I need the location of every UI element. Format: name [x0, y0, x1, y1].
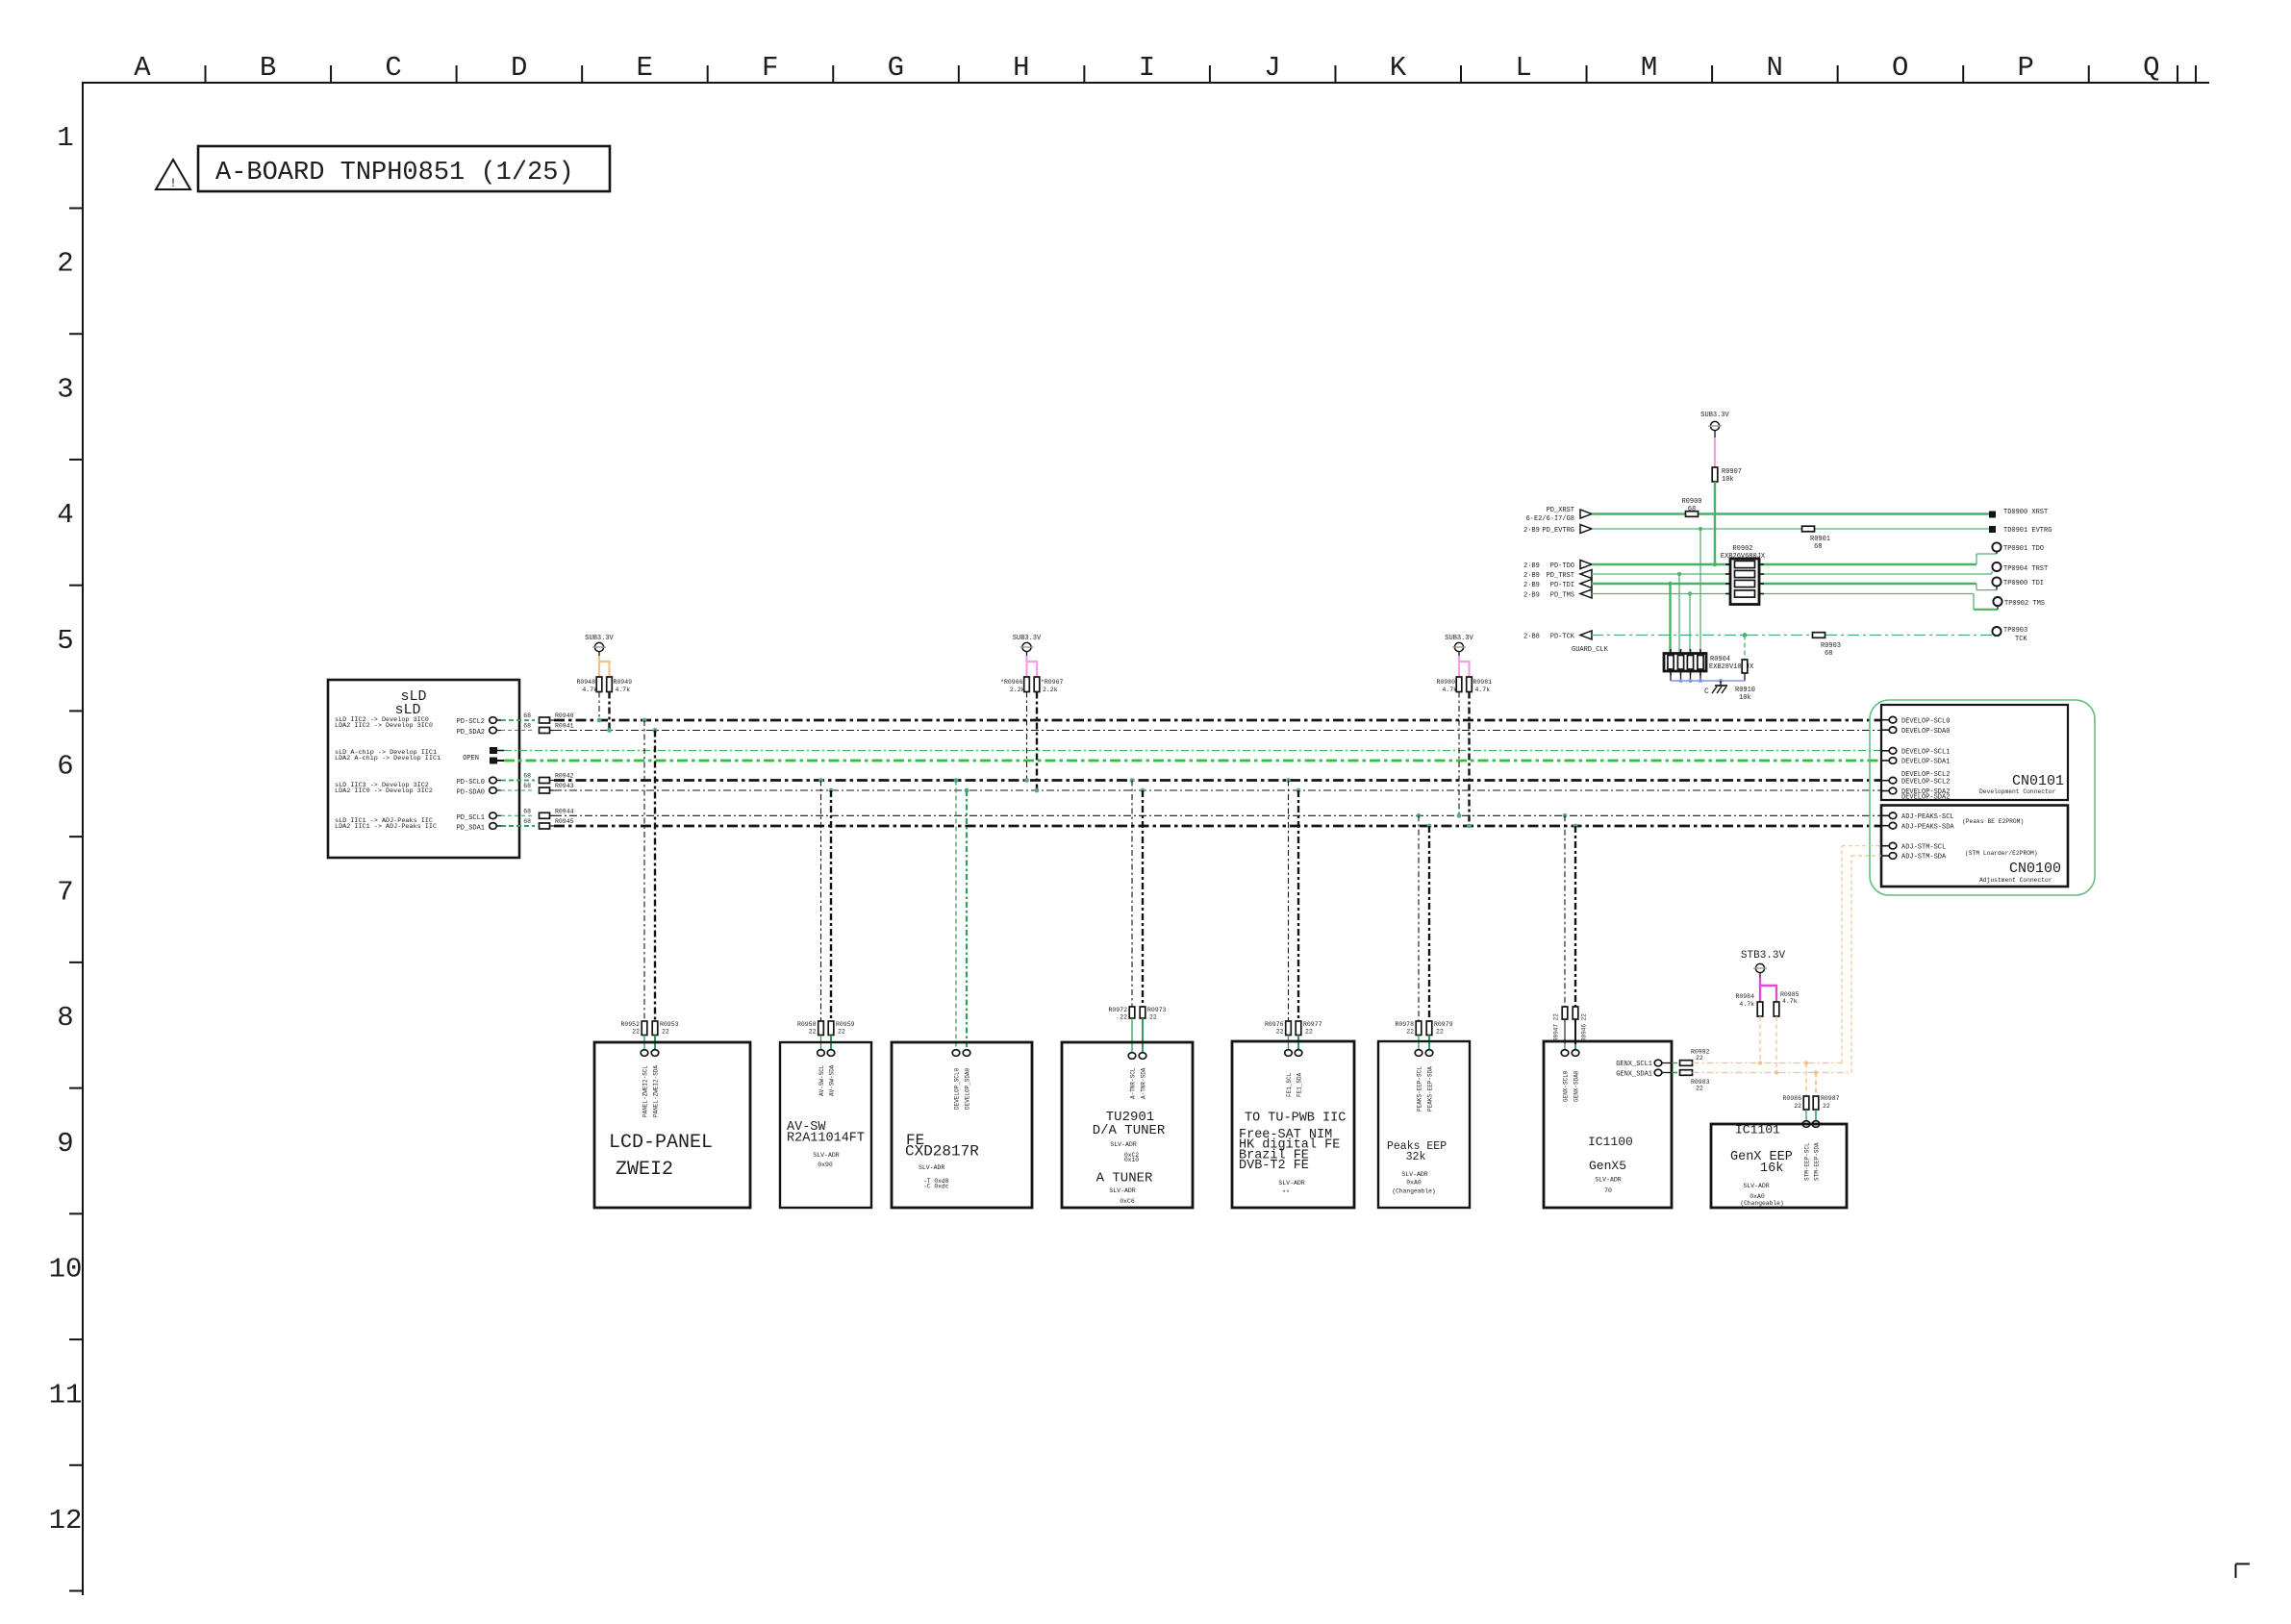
- svg-text:A-BOARD TNPH0851 (1/25): A-BOARD TNPH0851 (1/25): [215, 159, 574, 187]
- svg-text:4.7k: 4.7k: [616, 687, 631, 693]
- svg-text:R0901: R0901: [1810, 536, 1830, 543]
- svg-text:IC1100: IC1100: [1588, 1135, 1633, 1149]
- svg-text:DEVELOP_SDA0: DEVELOP_SDA0: [965, 1067, 971, 1110]
- svg-text:R0986: R0986: [1782, 1095, 1801, 1102]
- svg-text:SLV-ADR: SLV-ADR: [1743, 1183, 1769, 1189]
- pin DEVELOP-SCL2: [1881, 777, 1950, 786]
- svg-text:DEVELOP-SDA2: DEVELOP-SDA2: [1901, 794, 1950, 802]
- svg-text:LDA2 IIC2 -> Develop 3IC0: LDA2 IIC2 -> Develop 3IC0: [335, 722, 433, 730]
- svg-text:R2A11014FT: R2A11014FT: [787, 1132, 865, 1146]
- wire EVTRG tap down: [1699, 527, 1702, 654]
- svg-text:R0978: R0978: [1395, 1021, 1414, 1028]
- bus wire PD-SDA0 (thin): [554, 789, 1881, 791]
- pin PD_SCL1: [490, 812, 501, 819]
- svg-text:FE1_SDA: FE1_SDA: [1297, 1072, 1303, 1097]
- pin DEVELOP-SCL1: [1881, 748, 1950, 757]
- resistor array R0902 EXB26V680JX: [1721, 545, 1766, 605]
- svg-text:SLV-ADR: SLV-ADR: [1109, 1187, 1135, 1194]
- block IC1100 GenX5: [1544, 1041, 1672, 1208]
- block sLD: [328, 680, 519, 858]
- pin PD-SDA0: [490, 787, 501, 794]
- wire orange GENX_SCL1 to ADJ-STM-SCL: [1693, 846, 1882, 1063]
- svg-text:PEAKS-EEP-SCL: PEAKS-EEP-SCL: [1417, 1066, 1423, 1112]
- svg-text:O: O: [1892, 52, 1908, 84]
- wire PD-TCK dashed: [1580, 631, 1997, 639]
- power STB3.3V: [1741, 950, 1786, 978]
- svg-text:TCK: TCK: [2015, 636, 2027, 643]
- svg-text:DEVELOP-SCL2: DEVELOP-SCL2: [1901, 771, 1950, 779]
- resistor R0985 4.7k: [1774, 991, 1799, 1016]
- svg-text:R0940: R0940: [555, 712, 574, 719]
- resistor R0900 68: [1681, 498, 1701, 516]
- block AV-SW R2A11014FT: [780, 1042, 871, 1208]
- svg-text:R0904: R0904: [1710, 656, 1730, 663]
- junction dots on I2C bus: [642, 718, 1578, 829]
- svg-text:22: 22: [1149, 1014, 1157, 1021]
- svg-text:22: 22: [1696, 1086, 1703, 1092]
- svg-text:J: J: [1264, 52, 1280, 84]
- svg-text:AV-SW-SCL: AV-SW-SCL: [818, 1064, 825, 1096]
- pin DEVELOP-SCL0: [1881, 716, 1950, 725]
- svg-text:R0946 22: R0946 22: [1581, 1013, 1588, 1041]
- svg-text:32k: 32k: [1406, 1151, 1426, 1163]
- svg-text:M: M: [1641, 52, 1657, 84]
- svg-text:22: 22: [1406, 1029, 1414, 1036]
- svg-text:R0972: R0972: [1108, 1007, 1127, 1013]
- resistor R0978 22 + drop to Peaks EEP SCL: [1395, 815, 1422, 1056]
- svg-text:68: 68: [1814, 543, 1822, 551]
- svg-text:PD_TRST: PD_TRST: [1547, 572, 1574, 580]
- svg-text:ADJ-STM-SDA: ADJ-STM-SDA: [1901, 854, 1947, 862]
- svg-text:(Peaks BE E2PROM): (Peaks BE E2PROM): [1962, 818, 2024, 825]
- svg-text:2·B9: 2·B9: [1523, 572, 1540, 580]
- svg-text:D: D: [511, 52, 527, 84]
- svg-text:3: 3: [57, 373, 73, 405]
- connector CN0101 Development Connector: [1881, 705, 2068, 800]
- svg-text:R0984: R0984: [1735, 993, 1754, 1000]
- power SUB3.3V pullup R0948 R0949 4.7k: [576, 635, 632, 733]
- pin PD_SDA1: [490, 823, 501, 830]
- svg-text:PD-TDO: PD-TDO: [1550, 562, 1574, 570]
- svg-text:TP0902 TMS: TP0902 TMS: [2004, 600, 2045, 608]
- svg-text:R0902: R0902: [1732, 545, 1752, 553]
- pin PD-SCL0: [490, 777, 501, 784]
- svg-text:R0900: R0900: [1681, 498, 1701, 506]
- wire PD_TRST: [1580, 570, 1992, 579]
- power SUB3.3V (JTAG pull-up): [1700, 412, 1729, 437]
- resistor R0973 22 + drop to TU2901 SDA: [1139, 790, 1166, 1059]
- svg-text:R0959: R0959: [836, 1021, 855, 1028]
- svg-text:Adjustment Connector: Adjustment Connector: [1979, 877, 2052, 884]
- connector outline (green rounded): [1870, 700, 2095, 895]
- svg-text:PD_XRST: PD_XRST: [1547, 507, 1574, 514]
- svg-text:R0943: R0943: [555, 783, 574, 789]
- power SUB3.3V pullup R0966 R0967 2.2k: [1000, 635, 1063, 792]
- wire R0984 to STM SCL line: [1758, 1016, 1762, 1065]
- pin ADJ-PEAKS-SDA: [1881, 822, 1954, 831]
- pad TD0901 EVTRG: [1989, 526, 2052, 535]
- svg-text:22: 22: [1305, 1029, 1313, 1036]
- bus wire PD-SDA2 (thin): [554, 730, 1881, 732]
- resistor R0942 68: [523, 773, 573, 784]
- block TU2901 D/A TUNER: [1062, 1042, 1193, 1208]
- svg-text:GenX5: GenX5: [1589, 1159, 1626, 1173]
- svg-text:GENX-SDA0: GENX-SDA0: [1573, 1070, 1580, 1102]
- svg-text:DEVELOP_SCL0: DEVELOP_SCL0: [954, 1067, 961, 1110]
- svg-text:A-TNR-SDA: A-TNR-SDA: [1141, 1067, 1147, 1099]
- svg-text:2·B9: 2·B9: [1523, 592, 1540, 600]
- svg-text:PANEL-ZWEI2-SCL: PANEL-ZWEI2-SCL: [642, 1065, 649, 1117]
- svg-text:R0949: R0949: [614, 679, 633, 686]
- svg-text:6·E2/6·I7/G8: 6·E2/6·I7/G8: [1526, 515, 1574, 523]
- wire TDO to TP0901: [1759, 551, 1997, 564]
- svg-text:2: 2: [57, 248, 73, 280]
- svg-text:10k: 10k: [1739, 694, 1751, 702]
- svg-text:**: **: [1282, 1189, 1290, 1196]
- test point TP0901 TDO: [1992, 542, 2044, 553]
- svg-text:R0903: R0903: [1821, 642, 1841, 650]
- svg-text:STB3.3V: STB3.3V: [1741, 950, 1786, 962]
- resistor R0958 22 + drop to AV-SW SCL: [797, 781, 824, 1057]
- svg-text:F: F: [762, 52, 778, 84]
- svg-text:DEVELOP-SDA1: DEVELOP-SDA1: [1901, 759, 1950, 766]
- svg-text:PD-SDA0: PD-SDA0: [457, 789, 485, 797]
- resistor R0940 68: [523, 712, 573, 723]
- svg-text:22: 22: [1436, 1029, 1444, 1036]
- svg-text:SLV-ADR: SLV-ADR: [1401, 1171, 1427, 1178]
- svg-text:TP0904 TRST: TP0904 TRST: [2003, 565, 2048, 573]
- bus wire IIC1 SCL green: [504, 750, 1881, 752]
- resistor R0946 22 + drop to IC1100 SDA: [1572, 826, 1579, 1056]
- svg-text:0x90: 0x90: [818, 1162, 833, 1168]
- svg-text:SUB3.3V: SUB3.3V: [1013, 635, 1042, 642]
- svg-text:22: 22: [1696, 1055, 1703, 1062]
- svg-text:TO TU-PWB IIC: TO TU-PWB IIC: [1245, 1112, 1346, 1126]
- test point TP0903 TCK: [1992, 627, 2027, 643]
- svg-text:-C 0xdc: -C 0xdc: [923, 1184, 949, 1190]
- svg-text:DEVELOP-SDA0: DEVELOP-SDA0: [1901, 728, 1950, 736]
- svg-text:H: H: [1013, 52, 1029, 84]
- wire drop to FE DEVELOP_SCL0 (green): [952, 781, 960, 1057]
- svg-text:R0958: R0958: [797, 1021, 817, 1028]
- resistor array R0904 EXB28V103JX: [1664, 649, 1754, 676]
- svg-text:N: N: [1766, 52, 1782, 84]
- svg-text:10: 10: [49, 1254, 83, 1286]
- node PD_EVTRG label: [1523, 527, 1574, 535]
- svg-text:STM-EEP-SDA: STM-EEP-SDA: [1814, 1142, 1821, 1181]
- svg-text:Q: Q: [2143, 52, 2159, 84]
- node PD-TCK label: [1523, 634, 1575, 641]
- svg-text:R0952: R0952: [620, 1021, 640, 1028]
- node PD-TDO label: [1523, 562, 1574, 570]
- svg-text:R0953: R0953: [660, 1021, 679, 1028]
- node PD-XRST label: [1526, 507, 1574, 523]
- svg-text:6: 6: [57, 751, 73, 783]
- svg-text:0xC6: 0xC6: [1120, 1198, 1135, 1205]
- resistor R0943 68: [523, 783, 573, 793]
- test point TP0902 TMS: [1993, 597, 2045, 608]
- svg-text:OPEN: OPEN: [463, 755, 479, 762]
- svg-text:2·B9: 2·B9: [1523, 527, 1540, 535]
- svg-text:22: 22: [1823, 1103, 1830, 1110]
- svg-text:4.7k: 4.7k: [1782, 998, 1798, 1005]
- pin DEVELOP-SDA2: [1881, 787, 1950, 796]
- bus wire PD-SCL0 (thick): [554, 779, 1881, 782]
- wire TMS tap down: [1689, 594, 1691, 655]
- pin ADJ-STM-SCL: [1881, 842, 1946, 851]
- svg-text:8: 8: [57, 1002, 73, 1034]
- test point TP0904 TRST: [1992, 562, 2048, 573]
- svg-text:C: C: [1704, 687, 1709, 696]
- svg-text:B: B: [260, 52, 276, 84]
- svg-text:DEVELOP-SCL2: DEVELOP-SCL2: [1901, 778, 1950, 786]
- svg-text:68: 68: [523, 808, 531, 814]
- block IC1101 GenX EEP 16k: [1711, 1123, 1847, 1209]
- ground chassis symbol: [1704, 681, 1727, 696]
- svg-text:PANEL-ZWEI2-SDA: PANEL-ZWEI2-SDA: [653, 1065, 660, 1117]
- svg-text:R0987: R0987: [1821, 1095, 1840, 1102]
- svg-text:DEVELOP-SCL1: DEVELOP-SCL1: [1901, 749, 1950, 757]
- svg-text:PD_SCL1: PD_SCL1: [457, 814, 485, 822]
- svg-text:9: 9: [57, 1128, 73, 1160]
- node PD-TDI label: [1523, 582, 1574, 589]
- resistor R0941 68: [523, 723, 573, 734]
- svg-text:L: L: [1515, 52, 1531, 84]
- resistor R0901 68: [1802, 526, 1831, 551]
- svg-text:STM-EEP-SCL: STM-EEP-SCL: [1804, 1142, 1811, 1181]
- block FE CXD2817R: [892, 1042, 1032, 1208]
- svg-text:P: P: [2018, 52, 2034, 84]
- svg-text:12: 12: [49, 1505, 83, 1537]
- svg-text:IC1101: IC1101: [1735, 1123, 1780, 1137]
- svg-text:2·B9: 2·B9: [1523, 562, 1540, 570]
- wire PD_TMS: [1580, 589, 1998, 610]
- svg-text:SLV-ADR: SLV-ADR: [919, 1164, 944, 1171]
- svg-text:R0979: R0979: [1434, 1021, 1453, 1028]
- svg-text:(Changeable): (Changeable): [1740, 1200, 1783, 1207]
- svg-text:LDA2 IIC1 -> ADJ-Peaks IIC: LDA2 IIC1 -> ADJ-Peaks IIC: [335, 823, 437, 831]
- pin DEVELOP-SDA1: [1881, 758, 1950, 766]
- svg-text:PD-TDI: PD-TDI: [1550, 582, 1574, 589]
- svg-text:R0942: R0942: [555, 773, 574, 780]
- svg-text:22: 22: [809, 1029, 817, 1036]
- svg-text:ZWEI2: ZWEI2: [616, 1159, 673, 1181]
- resistor R0907 10k: [1712, 467, 1742, 484]
- resistor R0979 22 + drop to Peaks EEP SDA: [1425, 826, 1452, 1056]
- svg-text:PEAKS-EEP-SDA: PEAKS-EEP-SDA: [1427, 1066, 1434, 1112]
- resistor R0952 22 + drop to LCD panel SCL: [620, 720, 647, 1056]
- resistor R0959 22 + drop to AV-SW SDA: [827, 790, 854, 1056]
- svg-text:I: I: [1139, 52, 1155, 84]
- svg-text:PD_TMS: PD_TMS: [1550, 592, 1574, 600]
- wire magenta STB3.3V to pullups: [1760, 978, 1776, 1002]
- svg-text:SLV-ADR: SLV-ADR: [1595, 1177, 1621, 1184]
- svg-text:FE1_SCL: FE1_SCL: [1286, 1072, 1293, 1097]
- pin GENX_SDA1: [1616, 1069, 1677, 1078]
- wire sLD pins to series resistors: [501, 720, 535, 826]
- wire PD-XRST: [1580, 510, 1992, 518]
- wire orange drop to R0987: [1814, 1070, 1818, 1096]
- svg-text:22: 22: [1794, 1103, 1801, 1110]
- svg-text:2·B8: 2·B8: [1523, 634, 1540, 641]
- svg-text:K: K: [1390, 52, 1407, 84]
- svg-text:ADJ-PEAKS-SCL: ADJ-PEAKS-SCL: [1901, 813, 1954, 821]
- svg-text:!: !: [169, 176, 177, 190]
- bus wire ADJ-PEAKS SCL (thin): [554, 814, 1881, 816]
- wire drop to FE DEVELOP_SDA0 (green thick): [963, 790, 970, 1056]
- svg-text:R0948: R0948: [576, 679, 595, 686]
- svg-text:(STM Loarder/E2PROM): (STM Loarder/E2PROM): [1965, 850, 2038, 857]
- crop corner mark bottom right: [2236, 1564, 2251, 1579]
- svg-text:SLV-ADR: SLV-ADR: [813, 1152, 839, 1159]
- resistor R0982 22: [1680, 1049, 1710, 1066]
- wire TCK tap to R0910: [1743, 633, 1748, 660]
- svg-text:R0981: R0981: [1473, 679, 1493, 686]
- svg-text:TD0901 EVTRG: TD0901 EVTRG: [2003, 527, 2052, 535]
- node PD_TRST label: [1523, 572, 1574, 580]
- svg-text:70: 70: [1604, 1187, 1612, 1194]
- svg-text:CN0100: CN0100: [2009, 861, 2061, 877]
- resistor R0944 68: [523, 808, 573, 818]
- resistor R0945 68: [523, 818, 573, 829]
- svg-text:TD0900 XRST: TD0900 XRST: [2003, 509, 2048, 516]
- svg-text:PD_SDA2: PD_SDA2: [457, 729, 485, 737]
- pin DEVELOP-SDA0: [1881, 727, 1950, 736]
- svg-text:*R0967: *R0967: [1041, 679, 1064, 686]
- power SUB3.3V pullup R0980 R0981 4.7k: [1436, 635, 1492, 828]
- svg-text:0xA0: 0xA0: [1750, 1193, 1765, 1200]
- wire R0986 to STM-EEP-SCL pin: [1802, 1110, 1810, 1127]
- svg-text:4.7k: 4.7k: [1442, 687, 1457, 693]
- svg-text:GUARD_CLK: GUARD_CLK: [1572, 646, 1609, 654]
- svg-text:0x10: 0x10: [1124, 1157, 1139, 1163]
- svg-text:R0973: R0973: [1147, 1007, 1167, 1013]
- svg-text:PD-SCL2: PD-SCL2: [457, 718, 485, 726]
- svg-text:R0910: R0910: [1735, 687, 1755, 694]
- svg-text:GENX-SCL0: GENX-SCL0: [1563, 1070, 1570, 1102]
- resistor R0976 22 + drop to TU-PWB SCL: [1265, 781, 1292, 1057]
- pin OPEN IIC1 SDA: [490, 758, 504, 764]
- warning triangle: [156, 160, 190, 190]
- svg-text:(Changeable): (Changeable): [1392, 1188, 1435, 1195]
- wire orange drop to R0986: [1804, 1061, 1808, 1096]
- resistor R0903 68: [1813, 633, 1842, 658]
- svg-text:R0944: R0944: [555, 808, 574, 814]
- svg-text:2·B9: 2·B9: [1523, 582, 1540, 589]
- pin GENX_SCL1: [1616, 1060, 1677, 1068]
- svg-text:R0907: R0907: [1722, 468, 1742, 476]
- svg-text:22: 22: [1120, 1014, 1127, 1021]
- svg-text:DVB-T2 FE: DVB-T2 FE: [1239, 1159, 1309, 1173]
- svg-text:LDA2 A-chip -> Develop IIC1: LDA2 A-chip -> Develop IIC1: [335, 755, 441, 762]
- resistor R0972 22 + drop to TU2901 SCL: [1108, 781, 1135, 1060]
- svg-text:R0977: R0977: [1303, 1021, 1322, 1028]
- resistor R0953 22 + drop to LCD panel SDA: [651, 731, 678, 1057]
- svg-text:G: G: [888, 52, 904, 84]
- block Peaks EEP 32k: [1378, 1041, 1470, 1208]
- svg-text:68: 68: [1825, 650, 1832, 658]
- svg-text:68: 68: [523, 723, 531, 730]
- svg-text:1: 1: [57, 122, 73, 154]
- svg-text:R0985: R0985: [1780, 991, 1800, 998]
- pin PD-SDA2: [490, 727, 501, 734]
- wire PD-TDI: [1580, 580, 1997, 590]
- title box A-BOARD TNPH0851 (1/25): [198, 146, 610, 191]
- svg-text:2.2k: 2.2k: [1010, 687, 1025, 693]
- svg-text:PD_EVTRG: PD_EVTRG: [1542, 527, 1574, 535]
- svg-text:R0980: R0980: [1436, 679, 1455, 686]
- wire pink SUB3.3V to R0907: [1714, 437, 1716, 467]
- svg-text:TP0901 TDO: TP0901 TDO: [2003, 545, 2044, 553]
- svg-text:LDA2 IIC0 -> Develop 3IC2: LDA2 IIC0 -> Develop 3IC2: [335, 787, 433, 795]
- wire PD-TDO: [1580, 561, 1730, 569]
- svg-text:11: 11: [49, 1379, 83, 1411]
- svg-text:SUB3.3V: SUB3.3V: [1445, 635, 1473, 642]
- svg-text:4: 4: [57, 499, 73, 531]
- resistor R0987 22: [1813, 1095, 1839, 1110]
- svg-text:*R0966: *R0966: [1000, 679, 1023, 686]
- svg-text:68: 68: [523, 773, 531, 780]
- svg-text:PD-SCL0: PD-SCL0: [457, 779, 485, 787]
- resistor R0910 10k: [1735, 660, 1755, 702]
- svg-text:22: 22: [662, 1029, 669, 1036]
- resistor R0977 22 + drop to TU-PWB SDA: [1295, 790, 1322, 1056]
- node PD_TMS label: [1523, 592, 1574, 600]
- svg-text:22: 22: [1276, 1029, 1284, 1036]
- svg-text:SLV-ADR: SLV-ADR: [1278, 1180, 1304, 1187]
- svg-text:PD-TCK: PD-TCK: [1550, 634, 1575, 641]
- resistor R0986 22: [1782, 1095, 1808, 1110]
- bus wire ADJ-PEAKS SDA (thick): [554, 825, 1881, 828]
- svg-text:ADJ-PEAKS-SDA: ADJ-PEAKS-SDA: [1901, 823, 1954, 831]
- wire TRST tap down: [1678, 574, 1680, 654]
- svg-text:4.7k: 4.7k: [1475, 687, 1491, 693]
- svg-text:R0947 22: R0947 22: [1553, 1013, 1560, 1041]
- svg-text:22: 22: [838, 1029, 845, 1036]
- svg-text:7: 7: [57, 876, 73, 908]
- svg-text:SLV-ADR: SLV-ADR: [1110, 1141, 1136, 1148]
- svg-text:DEVELOP-SCL0: DEVELOP-SCL0: [1901, 717, 1950, 725]
- svg-text:TP0903: TP0903: [2003, 627, 2027, 635]
- svg-text:D/A TUNER: D/A TUNER: [1093, 1123, 1166, 1138]
- pin ADJ-STM-SDA: [1881, 853, 1947, 862]
- column letters ruler: [134, 52, 2196, 84]
- row numbers ruler: [49, 122, 83, 1591]
- svg-text:5: 5: [57, 625, 73, 657]
- svg-text:CXD2817R: CXD2817R: [905, 1143, 979, 1161]
- wire R0985 to STM SDA line: [1775, 1016, 1778, 1075]
- wire blue ground bus under R0904: [1671, 673, 1745, 683]
- svg-text:E: E: [636, 52, 652, 84]
- svg-text:PD_SDA1: PD_SDA1: [457, 825, 485, 833]
- resistor R0947 22 + drop to IC1100 SCL: [1561, 815, 1569, 1056]
- svg-text:GENX_SDA1: GENX_SDA1: [1616, 1071, 1652, 1079]
- wire PD_EVTRG: [1580, 525, 1992, 534]
- svg-text:68: 68: [523, 818, 531, 825]
- svg-text:0xA0: 0xA0: [1406, 1180, 1422, 1187]
- svg-text:A-TNR-SCL: A-TNR-SCL: [1130, 1067, 1137, 1099]
- bus wire IIC1 SDA green thick: [504, 760, 1881, 762]
- svg-text:SUB3.3V: SUB3.3V: [585, 635, 614, 642]
- wire R0987 to STM-EEP-SDA pin: [1812, 1110, 1820, 1127]
- svg-text:10k: 10k: [1722, 476, 1734, 484]
- block TO TU-PWB IIC: [1232, 1041, 1354, 1208]
- svg-text:68: 68: [523, 712, 531, 719]
- pin OPEN IIC1 SCL: [490, 747, 504, 754]
- svg-text:A: A: [134, 52, 151, 84]
- svg-text:ADJ-STM-SCL: ADJ-STM-SCL: [1901, 843, 1946, 851]
- svg-text:16k: 16k: [1760, 1162, 1783, 1176]
